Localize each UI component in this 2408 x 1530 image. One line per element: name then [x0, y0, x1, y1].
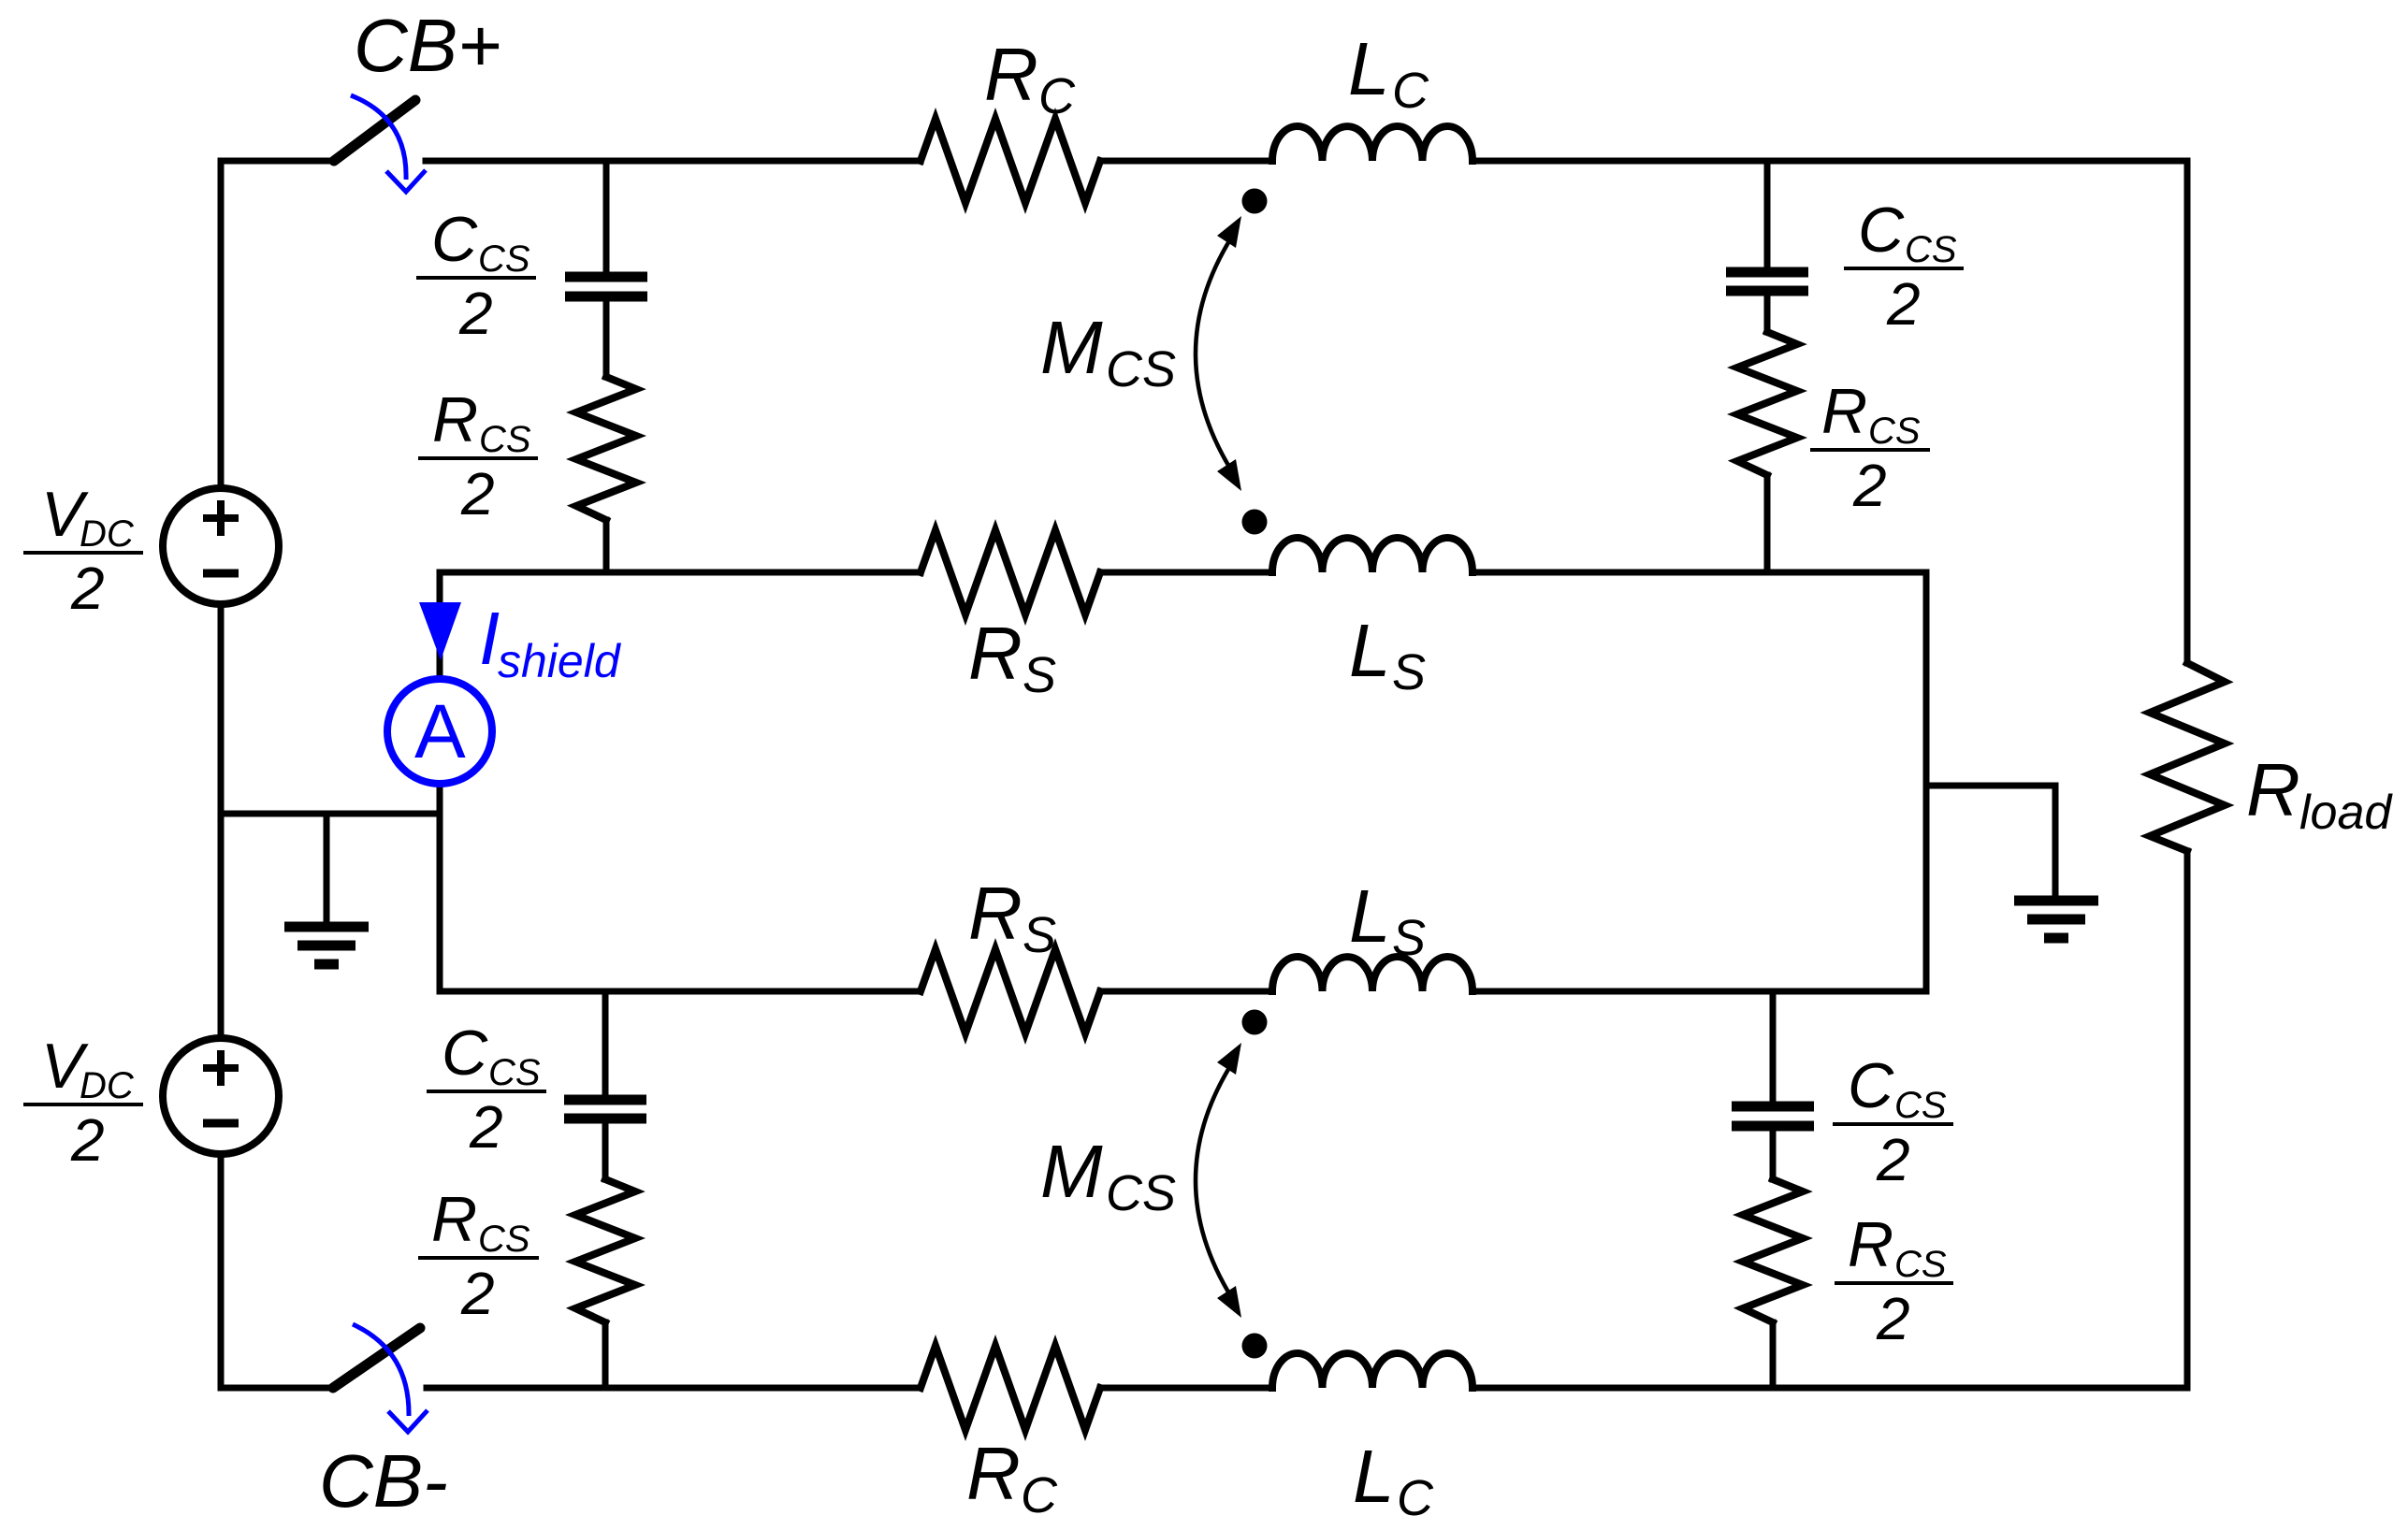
wire left rail mid section between sources	[218, 604, 225, 1038]
svg-text:S: S	[1023, 907, 1056, 963]
inductor L_C bottom	[1272, 1353, 1472, 1388]
svg-text:CB+: CB+	[354, 4, 501, 87]
wire bottom-right branch: R_CS/2 to bottom wire	[1770, 1322, 1777, 1388]
svg-text:CS: CS	[479, 419, 531, 460]
voltage source VDC/2 top	[163, 488, 279, 604]
wire bottom right from corner to L_C	[1472, 1385, 2187, 1392]
ground left	[284, 922, 369, 932]
svg-text:R: R	[968, 872, 1023, 955]
wire left rail top section	[218, 161, 225, 488]
resistor R_CS/2 bottom-left	[575, 1179, 635, 1322]
wire bottom from R_C to CB- contact	[427, 1385, 919, 1392]
resistor R_CS/2 bottom-right	[1743, 1179, 1803, 1322]
wire bottom between L_C and R_C	[1100, 1385, 1272, 1392]
svg-text:R: R	[431, 1184, 477, 1255]
svg-text:L: L	[1349, 609, 1391, 692]
mutual coupling arrow M_CS bottom	[1196, 1056, 1237, 1306]
svg-text:I: I	[479, 597, 500, 680]
wire shield left edge below ammeter	[437, 784, 443, 991]
CB- blue actuation arc	[353, 1324, 409, 1416]
svg-text:C: C	[1392, 63, 1429, 119]
svg-text:DC: DC	[80, 1065, 135, 1106]
wire top-left branch: R_CS/2 to shield top	[603, 520, 610, 572]
svg-text:CS: CS	[1905, 229, 1957, 270]
svg-text:M: M	[1040, 1130, 1103, 1213]
mutual coupling arrow M_CS top	[1196, 229, 1237, 479]
wire shield top edge left of R_S	[440, 570, 921, 576]
wire top from L_C to top-right corner	[1472, 158, 2187, 165]
svg-text:CS: CS	[1868, 411, 1921, 452]
svg-text:CS: CS	[478, 238, 530, 280]
wire bottom-left branch: shield bottom to C_CS/2	[602, 991, 609, 1095]
wire top left from rail to CB+ hinge	[221, 158, 334, 165]
wire shield left edge above ammeter	[437, 572, 443, 679]
CB+ blue actuation arc	[351, 95, 406, 180]
ammeter A circle	[387, 679, 492, 784]
voltage source VDC/2 bottom	[163, 1038, 279, 1154]
wire shield bottom edge left of R_S	[440, 989, 919, 995]
wire stub to left ground	[324, 814, 330, 922]
resistor R_S bottom shield	[921, 949, 1100, 1033]
svg-text:2: 2	[1876, 1285, 1910, 1352]
svg-text:S: S	[1392, 644, 1426, 700]
node dot bottom conductor	[1242, 1334, 1268, 1359]
ground right	[2014, 896, 2098, 906]
svg-text:DC: DC	[80, 513, 135, 555]
svg-text:C: C	[431, 204, 478, 275]
svg-text:S: S	[1023, 647, 1056, 703]
wire shield bottom edge right of L_S	[1472, 989, 1926, 995]
resistor R_C bottom	[921, 1346, 1100, 1430]
wire top-right branch: top wire to C_CS/2	[1764, 161, 1771, 267]
wire stub from shield right edge toward right ground	[1926, 783, 2055, 789]
wire top between R_C and L_C	[1100, 158, 1272, 165]
svg-text:CS: CS	[1894, 1085, 1947, 1126]
inductor L_S bottom shield	[1272, 957, 1472, 991]
capacitor C_CS/2 bottom-right	[1732, 1102, 1814, 1112]
node dot top shield	[1242, 510, 1268, 535]
svg-text:CS: CS	[1894, 1244, 1947, 1285]
svg-text:L: L	[1353, 1435, 1395, 1518]
svg-text:CB-: CB-	[319, 1439, 448, 1523]
inductor L_S top shield	[1272, 538, 1472, 572]
resistor R_CS/2 top-left	[576, 377, 636, 520]
svg-text:L: L	[1348, 27, 1390, 110]
resistor R_C top	[921, 119, 1100, 203]
wire top from CB+ contact through node to R_C	[426, 158, 921, 165]
wire bottom-left branch: cap to R_CS/2	[602, 1123, 609, 1179]
svg-text:2: 2	[460, 460, 495, 527]
svg-text:L: L	[1349, 874, 1391, 958]
wire bottom-right branch: cap to R_CS/2	[1770, 1131, 1777, 1179]
svg-text:2: 2	[458, 280, 493, 347]
svg-text:C: C	[1858, 195, 1905, 266]
svg-text:2: 2	[70, 555, 105, 622]
svg-text:R: R	[984, 33, 1038, 116]
svg-text:2: 2	[1886, 270, 1921, 338]
I_shield blue arrow	[419, 602, 461, 660]
wire shield right edge	[1923, 572, 1930, 991]
wire midpoint junction to shield left edge	[221, 811, 440, 817]
wire right rail upper (to R_load)	[2184, 161, 2191, 663]
switch CB+ blade	[334, 100, 415, 161]
svg-text:C: C	[1848, 1050, 1894, 1121]
svg-text:R: R	[968, 612, 1023, 695]
svg-text:load: load	[2299, 786, 2393, 840]
inductor L_C top	[1272, 126, 1472, 161]
svg-text:shield: shield	[498, 635, 622, 687]
wire right rail lower (R_load to bottom wire)	[2184, 851, 2191, 1388]
svg-text:M: M	[1040, 306, 1103, 389]
wire top-left branch: top wire to C_CS/2	[603, 161, 610, 272]
svg-text:C: C	[1038, 68, 1076, 124]
svg-text:2: 2	[460, 1260, 495, 1327]
wire top-right branch: cap to R_CS/2	[1764, 296, 1771, 332]
svg-text:2: 2	[1876, 1126, 1910, 1193]
svg-text:CS: CS	[1106, 341, 1176, 397]
capacitor C_CS/2 top-right	[1726, 267, 1808, 278]
svg-text:R: R	[1821, 376, 1867, 447]
svg-text:2: 2	[1852, 452, 1887, 519]
wire top-left branch: cap to R_CS/2	[603, 301, 610, 377]
wire bottom left from CB- hinge to rail	[221, 1385, 333, 1392]
wire bottom-right branch: shield bottom to C_CS/2	[1770, 991, 1777, 1102]
wire bottom-left branch: R_CS/2 to bottom wire	[602, 1322, 609, 1388]
resistor R_S top shield	[921, 530, 1100, 614]
node dot top conductor	[1242, 189, 1268, 214]
svg-text:C: C	[1397, 1470, 1434, 1525]
wire shield bottom edge between L_S and R_S	[1100, 989, 1272, 995]
svg-text:2: 2	[469, 1093, 503, 1161]
switch CB- blade	[333, 1328, 420, 1388]
svg-text:A: A	[414, 689, 466, 774]
svg-text:R: R	[2246, 748, 2300, 831]
capacitor C_CS/2 top-left	[565, 272, 647, 282]
svg-text:R: R	[432, 384, 478, 455]
svg-text:R: R	[966, 1432, 1021, 1515]
svg-text:C: C	[1021, 1467, 1058, 1523]
svg-text:CS: CS	[488, 1052, 541, 1093]
wire left rail bottom section	[218, 1154, 225, 1388]
svg-text:2: 2	[70, 1106, 105, 1174]
wire shield top edge between R_S and L_S	[1100, 570, 1272, 576]
resistor R_CS/2 top-right	[1737, 332, 1797, 475]
node dot bottom shield	[1242, 1010, 1268, 1035]
svg-text:S: S	[1392, 910, 1426, 966]
wire top-right branch: R_CS/2 to shield top	[1764, 475, 1771, 572]
svg-text:R: R	[1848, 1209, 1893, 1280]
svg-text:C: C	[442, 1018, 488, 1089]
svg-text:CS: CS	[478, 1219, 530, 1260]
wire shield top edge right of L_S	[1472, 570, 1926, 576]
resistor R_load	[2150, 663, 2225, 851]
capacitor C_CS/2 bottom-left	[564, 1095, 646, 1105]
svg-text:CS: CS	[1106, 1165, 1176, 1221]
